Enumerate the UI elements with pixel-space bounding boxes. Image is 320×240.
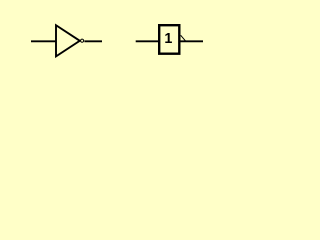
inverter U2 (DIN/IEC box symbol)	[136, 25, 203, 54]
negation wedge at U2 output	[181, 35, 186, 41]
wire: U1 input	[31, 40, 57, 42]
wire: U2 input	[136, 40, 159, 42]
canvas background	[0, 0, 238, 86]
inverter U2 box body	[159, 25, 179, 54]
wire: U1 output	[84, 40, 102, 42]
inversion bubble at U1 output	[81, 39, 84, 42]
wire: U2 output	[180, 40, 203, 42]
inverter U1 triangle body	[56, 25, 80, 56]
inverter U1 (ANSI triangle symbol)	[31, 25, 102, 56]
svg-text:1: 1	[164, 31, 172, 47]
